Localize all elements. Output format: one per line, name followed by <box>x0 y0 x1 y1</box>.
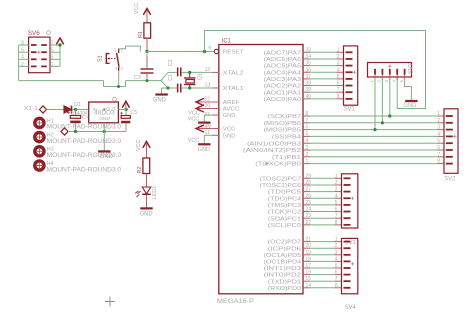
svg-text:6: 6 <box>337 81 340 87</box>
connector SV4 <box>342 238 358 293</box>
svg-text:GND: GND <box>223 113 236 119</box>
svg-text:4: 4 <box>121 66 124 71</box>
svg-text:25: 25 <box>306 200 312 206</box>
svg-text:4: 4 <box>335 256 338 262</box>
svg-text:33: 33 <box>306 47 312 53</box>
junction dot IC5 ground <box>103 130 106 133</box>
svg-text:(ADC7)PA7: (ADC7)PA7 <box>264 50 301 56</box>
diode D1 <box>64 106 71 113</box>
svg-text:SV1: SV1 <box>344 107 356 113</box>
svg-text:5: 5 <box>337 74 340 80</box>
svg-text:(TCK)PC2: (TCK)PC2 <box>268 210 301 216</box>
SV6 origin glyph <box>47 31 51 35</box>
svg-text:38: 38 <box>306 81 312 87</box>
capacitor C5 (polarized) <box>125 110 127 116</box>
IC1 left pin stubs <box>212 71 219 73</box>
svg-text:GND: GND <box>99 116 110 122</box>
svg-text:MOUNT-PAD-ROUND3.0: MOUNT-PAD-ROUND3.0 <box>47 152 122 159</box>
svg-text:(OC1A)PD5: (OC1A)PD5 <box>264 253 301 259</box>
wire SV7 pin2 to SPI net <box>381 78 383 123</box>
svg-text:(AIN1/OC0)PB3: (AIN1/OC0)PB3 <box>247 141 301 147</box>
svg-text:(INT1)PD3: (INT1)PD3 <box>264 266 301 272</box>
svg-text:C2: C2 <box>168 59 174 66</box>
wire S1 bottom pin to GND net <box>118 71 120 87</box>
junction dot crystal top <box>188 71 191 74</box>
svg-text:SV4: SV4 <box>345 305 357 311</box>
svg-text:(INT0)PD2: (INT0)PD2 <box>264 273 301 279</box>
svg-text:(TXD)PD1: (TXD)PD1 <box>268 279 301 285</box>
junction dot C4 ground <box>74 130 77 133</box>
svg-text:GND: GND <box>153 97 167 103</box>
svg-text:22: 22 <box>306 220 312 226</box>
junction dot S1-GND <box>117 85 120 88</box>
S1 lever <box>117 53 119 67</box>
junction dot crystal GND <box>166 86 169 89</box>
connector SV3 <box>342 174 358 228</box>
svg-text:4: 4 <box>337 67 340 73</box>
svg-text:(SS)PB4: (SS)PB4 <box>272 135 302 141</box>
svg-text:GND: GND <box>198 147 210 153</box>
svg-text:23: 23 <box>306 213 312 219</box>
junction dot R1/RESET <box>145 50 148 53</box>
svg-text:7: 7 <box>337 87 340 93</box>
svg-text:5: 5 <box>399 80 404 83</box>
svg-text:3: 3 <box>306 145 309 151</box>
svg-text:(TMS)PC3: (TMS)PC3 <box>268 203 301 209</box>
C4 plus mark <box>67 111 70 114</box>
wires IC PB7-PB0 to SV2 pins, with pin numbers <box>303 115 310 117</box>
svg-text:(ADC2)PA2: (ADC2)PA2 <box>264 84 301 90</box>
svg-text:(T0/XCK)PB0: (T0/XCK)PB0 <box>255 162 301 168</box>
svg-text:37: 37 <box>306 74 312 80</box>
ground at GND pin 31 <box>204 114 212 116</box>
svg-text:29: 29 <box>306 173 312 179</box>
connector SV1 <box>344 46 358 105</box>
svg-text:AVCC: AVCC <box>223 107 240 113</box>
junction dot SV7 pin3 <box>388 114 391 117</box>
svg-text:(T1)PB1: (T1)PB1 <box>272 155 301 161</box>
junction dot C3/GND <box>146 79 149 82</box>
svg-text:S1: S1 <box>98 55 104 62</box>
svg-text:(OC1B)PD4: (OC1B)PD4 <box>264 260 302 266</box>
C3 lead bottom <box>146 74 148 78</box>
svg-text:LED1: LED1 <box>152 186 158 200</box>
ground symbol under LED1 <box>140 207 152 209</box>
svg-text:1: 1 <box>335 173 338 179</box>
svg-text:7: 7 <box>335 213 338 219</box>
IC5 origin cross <box>103 108 106 111</box>
switch S1 spring bracket <box>106 54 110 64</box>
svg-text:XTAL1: XTAL1 <box>223 86 244 92</box>
wire IC5 OUT to VCC <box>118 109 126 111</box>
svg-text:MOUNT-PAD-ROUND3.0: MOUNT-PAD-ROUND3.0 <box>47 124 122 131</box>
svg-text:SV7: SV7 <box>409 62 415 74</box>
voltage regulator IC5 <box>89 102 119 123</box>
wire GND net from SV6 to switch/C3 <box>19 80 104 82</box>
ground symbol under IC5 <box>98 150 110 152</box>
svg-text:VCC: VCC <box>223 127 236 133</box>
svg-text:8: 8 <box>437 159 440 165</box>
svg-text:GND: GND <box>403 103 417 109</box>
svg-text:AREF: AREF <box>223 100 240 106</box>
svg-text:4: 4 <box>335 193 338 199</box>
junction dot D1/C4 <box>74 108 77 111</box>
svg-text:2: 2 <box>306 152 309 158</box>
svg-text:5: 5 <box>306 131 309 137</box>
junction dot SV6 VCC <box>58 43 61 46</box>
crystal Q1 <box>184 77 196 78</box>
svg-text:34: 34 <box>306 54 312 60</box>
R2 lead to LED1 <box>146 174 148 187</box>
svg-text:28: 28 <box>306 180 312 186</box>
C3 lead top <box>146 52 148 57</box>
SV7 origin cross <box>388 64 392 68</box>
svg-text:IC1: IC1 <box>222 39 232 45</box>
svg-text:4: 4 <box>306 138 309 144</box>
svg-text:21: 21 <box>306 237 312 243</box>
svg-text:MOUNT-PAD-ROUND3.0: MOUNT-PAD-ROUND3.0 <box>47 138 122 145</box>
LED1 lead to ground <box>146 195 148 208</box>
svg-text:2: 2 <box>121 47 124 52</box>
svg-text:1: 1 <box>337 47 340 53</box>
VCC arrow at AREF pin 32 <box>196 101 212 103</box>
ground symbol at crystal <box>161 88 163 94</box>
svg-text:(RXD)PD0: (RXD)PD0 <box>268 286 301 292</box>
junction dot RESET riser <box>203 50 206 53</box>
svg-text:(SCL)PC0: (SCL)PC0 <box>268 223 301 229</box>
wire SV6 odd pins to VCC bracket <box>50 44 60 46</box>
svg-text:VCC: VCC <box>136 139 142 151</box>
resistor R1 <box>144 23 151 38</box>
svg-text:8: 8 <box>337 94 340 100</box>
connector SV6 <box>29 37 50 73</box>
svg-text:5: 5 <box>437 138 440 144</box>
svg-text:VCC: VCC <box>188 138 200 144</box>
svg-text:2: 2 <box>337 54 340 60</box>
sheet origin cross <box>105 297 115 307</box>
svg-text:(ADC1)PA1: (ADC1)PA1 <box>264 90 301 96</box>
wires IC PD7-PD0 to SV4 pins, with pin numbers <box>303 241 310 243</box>
svg-text:X1-1: X1-1 <box>24 106 38 112</box>
svg-text:6: 6 <box>335 270 338 276</box>
svg-text:3: 3 <box>437 125 440 131</box>
mount pad H1 <box>35 118 44 127</box>
mount pad H4 <box>35 161 44 170</box>
svg-text:39: 39 <box>306 87 312 93</box>
VCC supply arrow at IC5 output <box>122 101 129 107</box>
svg-text:VCC: VCC <box>188 117 200 123</box>
svg-text:6: 6 <box>437 145 440 151</box>
capacitor C3 <box>141 68 154 69</box>
wire IC5 GND pin down <box>103 123 105 151</box>
svg-text:4: 4 <box>437 131 440 137</box>
VCC arrow at AVCC pin 30 <box>196 108 212 110</box>
junction dot SV7 pin1 <box>373 128 376 131</box>
ground at GND pin 11 <box>204 134 212 136</box>
wire X1-1 to D1 <box>47 109 65 111</box>
svg-text:2: 2 <box>437 118 440 124</box>
svg-text:5: 5 <box>335 263 338 269</box>
wire SV7 pin5 to GND <box>405 78 412 100</box>
svg-text:(ICP)PD6: (ICP)PD6 <box>268 246 301 252</box>
svg-text:Q1: Q1 <box>198 73 204 80</box>
svg-text:36: 36 <box>306 67 312 73</box>
svg-text:19: 19 <box>306 250 312 256</box>
R1 lead to RESET net <box>146 38 148 51</box>
svg-text:(ADC5)PA5: (ADC5)PA5 <box>264 64 301 70</box>
wire D1 to IC5 IN <box>72 109 88 111</box>
IC5 name glyph <box>113 97 117 101</box>
svg-text:(ADC4)PA4: (ADC4)PA4 <box>264 70 302 76</box>
svg-text:6: 6 <box>335 207 338 213</box>
svg-text:(SDA)PC1: (SDA)PC1 <box>268 216 301 222</box>
svg-text:(MOSI)PB5: (MOSI)PB5 <box>264 128 301 134</box>
svg-text:GND: GND <box>140 211 154 217</box>
mount pad H2 <box>35 133 44 142</box>
RESET pin bubble <box>214 49 218 53</box>
wire SV7 pin3 to SPI net <box>389 78 391 116</box>
svg-text:1: 1 <box>369 80 374 83</box>
wire C1 to XTAL1 <box>182 87 212 89</box>
svg-text:7: 7 <box>335 276 338 282</box>
VCC supply arrow at R2 <box>143 142 150 148</box>
svg-text:3: 3 <box>337 61 340 67</box>
svg-text:16: 16 <box>306 270 312 276</box>
svg-text:40: 40 <box>306 94 312 100</box>
svg-text:R1: R1 <box>138 31 144 38</box>
svg-text:GND: GND <box>223 133 236 139</box>
svg-text:9: 9 <box>208 46 211 52</box>
svg-text:8: 8 <box>335 220 338 226</box>
wire C2 to XTAL2 <box>182 71 212 73</box>
SV2 origin cross <box>453 135 457 139</box>
SV1 origin cross <box>353 70 357 74</box>
svg-text:MOUNT-PAD-ROUND3.0: MOUNT-PAD-ROUND3.0 <box>47 166 122 173</box>
ground symbol at SV7 <box>405 100 417 102</box>
wire SV6 even pins to GND bracket <box>19 44 29 46</box>
svg-text:R2: R2 <box>137 166 143 173</box>
svg-text:(ADC3)PA3: (ADC3)PA3 <box>264 77 301 83</box>
IC1 origin cross <box>265 162 269 166</box>
svg-text:3: 3 <box>384 80 389 83</box>
resistor R2 <box>143 158 150 174</box>
wire RESET from switch to IC <box>147 51 205 53</box>
SV4 origin cross <box>351 262 355 266</box>
svg-text:8: 8 <box>306 111 309 117</box>
wires IC PC7-PC0 to SV3 pins, with pin numbers <box>303 177 310 179</box>
C5 plus mark <box>120 112 123 115</box>
svg-text:(TOSC1)PC6: (TOSC1)PC6 <box>260 183 302 189</box>
svg-text:3: 3 <box>335 250 338 256</box>
svg-text:26: 26 <box>306 193 312 199</box>
VCC supply arrow at R1 <box>143 9 150 15</box>
S1 top pin <box>118 49 120 53</box>
svg-text:20: 20 <box>306 243 312 249</box>
svg-text:48DO3: 48DO3 <box>94 111 115 117</box>
svg-text:18: 18 <box>306 256 312 262</box>
capacitor C4 (polarized) <box>75 110 77 116</box>
svg-text:(AIN0/INT2)PB2: (AIN0/INT2)PB2 <box>243 148 301 154</box>
svg-text:MEGA16-P: MEGA16-P <box>217 298 255 305</box>
svg-text:17: 17 <box>306 263 312 269</box>
svg-text:8: 8 <box>335 283 338 289</box>
IC1 MEGA16-P body <box>219 45 303 294</box>
capacitor C2 <box>177 68 179 77</box>
capacitor C1 <box>177 84 179 93</box>
junction dot SV7 pin2 <box>381 121 384 124</box>
svg-text:2: 2 <box>335 243 338 249</box>
svg-text:C1: C1 <box>168 74 174 81</box>
X1-2 pin pad <box>61 128 68 135</box>
svg-text:(OC2)PD7: (OC2)PD7 <box>268 240 301 246</box>
svg-text:15: 15 <box>306 276 312 282</box>
VCC supply arrow at SV6 <box>56 38 63 44</box>
svg-text:SV2: SV2 <box>444 176 456 182</box>
junction dot IC5 out <box>125 108 128 111</box>
svg-text:12: 12 <box>205 67 211 73</box>
svg-text:(ADC6)PA6: (ADC6)PA6 <box>264 57 301 63</box>
svg-text:C5: C5 <box>130 110 137 116</box>
svg-text:4: 4 <box>391 80 396 83</box>
svg-text:27: 27 <box>306 187 312 193</box>
svg-text:(TOSC2)PC7: (TOSC2)PC7 <box>260 176 302 182</box>
svg-text:5: 5 <box>335 200 338 206</box>
svg-text:7: 7 <box>306 118 309 124</box>
svg-text:RESET: RESET <box>223 50 244 56</box>
svg-text:VCC: VCC <box>134 3 140 15</box>
wire S1 top pin to RESET net <box>119 46 141 51</box>
svg-text:3: 3 <box>115 66 118 71</box>
svg-text:D1: D1 <box>74 102 81 108</box>
svg-text:24: 24 <box>306 207 312 213</box>
connector SV2 <box>444 109 458 174</box>
SV3 origin cross <box>351 196 355 200</box>
wire SV7 pin1 to SPI net <box>374 78 376 130</box>
wire GND vertex diagonals to C2/C1 <box>161 72 168 80</box>
svg-text:2: 2 <box>335 180 338 186</box>
VCC arrow at VCC pin 10 <box>196 128 212 130</box>
X1-1 pin pad <box>40 106 47 113</box>
svg-text:XTAL2: XTAL2 <box>223 71 244 77</box>
LED LED1 <box>142 187 151 194</box>
LED1 emission arrows <box>135 191 141 194</box>
svg-text:2: 2 <box>377 80 382 83</box>
S1 dashed actuator link <box>111 58 116 60</box>
junction dot crystal bottom <box>188 86 191 89</box>
mount pad H3 <box>35 147 44 156</box>
svg-text:7: 7 <box>437 152 440 158</box>
svg-text:1: 1 <box>306 159 309 165</box>
wire RESET riser to SV7 pin4 loop <box>205 31 426 109</box>
connector SV7 <box>368 63 412 78</box>
wires IC PA7-PA0 to SV1 pins, with pin numbers <box>303 51 310 53</box>
svg-text:6: 6 <box>306 125 309 131</box>
wire ground rail under regulator <box>68 131 126 133</box>
svg-text:(MISO)PB6: (MISO)PB6 <box>264 121 301 127</box>
svg-text:1: 1 <box>114 47 117 52</box>
svg-text:14: 14 <box>306 283 312 289</box>
svg-text:13: 13 <box>205 83 211 89</box>
svg-text:(ADC0)PA0: (ADC0)PA0 <box>264 97 301 103</box>
S1 bottom pin <box>118 67 120 71</box>
svg-text:(SCK)PB7: (SCK)PB7 <box>268 114 301 120</box>
svg-text:C3: C3 <box>134 75 141 81</box>
svg-text:(TDI)PC5: (TDI)PC5 <box>268 190 301 196</box>
svg-text:(TDO)PC4: (TDO)PC4 <box>268 196 302 202</box>
svg-text:3: 3 <box>335 187 338 193</box>
svg-text:SV6: SV6 <box>28 31 41 37</box>
svg-text:1: 1 <box>437 111 440 117</box>
svg-text:35: 35 <box>306 61 312 67</box>
SV6 origin cross <box>37 50 41 54</box>
svg-text:1: 1 <box>335 237 338 243</box>
svg-text:C4: C4 <box>82 115 89 121</box>
